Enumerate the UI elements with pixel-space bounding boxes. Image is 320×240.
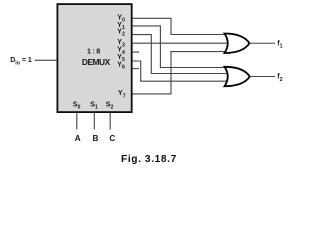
wire Y0 to G1 input1 [133,18,228,34]
wire select S2/C [109,113,111,130]
or-gate G1 [225,34,250,54]
wire Y4 stub [133,51,139,53]
svg-text:B: B [92,134,98,143]
or-gate G2 [225,67,250,86]
wire Din input [35,59,57,61]
wire Y6 stub [133,68,139,70]
wire Y5 to G2 input3 [133,61,228,81]
wire Y2 to G2 input2 [133,35,228,74]
svg-text:DEMUX: DEMUX [82,57,111,67]
wire select S1/B [93,113,95,130]
wire f1 output [250,42,276,44]
wire f2 output [250,76,275,78]
wire Y3 to G1 input2 [133,42,230,44]
wire Y7 to G1 input3 [133,52,228,94]
svg-text:C: C [109,134,115,143]
wire Y1 to G2 input1 [133,26,228,68]
svg-text:Fig. 3.18.7: Fig. 3.18.7 [121,154,177,165]
svg-text:A: A [75,134,81,143]
demux U1 body [57,4,131,112]
wire select S0/A [76,113,78,130]
svg-text:1 : 8: 1 : 8 [87,46,100,55]
